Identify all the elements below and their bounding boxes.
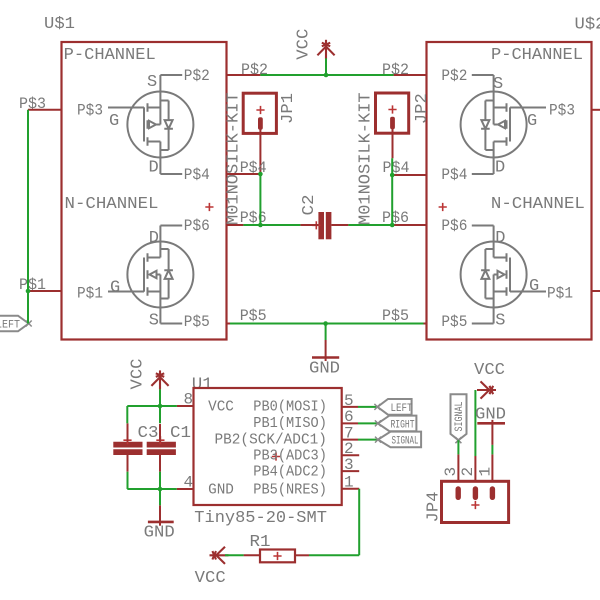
- GND JP4 bar: [477, 422, 505, 425]
- GND JP4 stem: [491, 420, 493, 445]
- svg-text:P$3: P$3: [77, 102, 103, 120]
- net label flag SIGNAL (U1 pin7): [358, 432, 421, 448]
- LEFT flag tip cross: [374, 404, 380, 410]
- VCC JP4 arrow symbol: [477, 381, 496, 398]
- U1 origin cross: [272, 452, 280, 460]
- U$2 origin cross: [439, 203, 447, 211]
- svg-text:RIGHT: RIGHT: [391, 419, 415, 431]
- U$1 origin cross: [205, 203, 213, 211]
- power symbol VCC left: [129, 359, 169, 390]
- pin stub U$1 P$3: [28, 109, 62, 111]
- svg-text:PB1(MISO): PB1(MISO): [253, 415, 327, 432]
- JP2 pin 1 lead wire: [392, 129, 394, 159]
- svg-text:VCC: VCC: [474, 361, 505, 380]
- SIGNAL vertical flag outline: [451, 394, 467, 440]
- wire C1 bottom vertical: [159, 472, 161, 506]
- net label flag LEFT (west): [0, 316, 32, 332]
- svg-text:S: S: [147, 73, 157, 92]
- JP4 pin2 net wire: [474, 390, 476, 456]
- svg-text:P$5: P$5: [441, 313, 467, 331]
- svg-text:G: G: [109, 112, 119, 131]
- capacitor C2: [300, 195, 348, 240]
- svg-text:S: S: [495, 312, 505, 331]
- JP4 pin 1 stub: [491, 454, 493, 481]
- GND stem: [325, 340, 327, 361]
- svg-text:PB4(ADC2): PB4(ADC2): [253, 464, 327, 481]
- JP1 pad pin 1: [258, 117, 263, 129]
- pin stub U$2 P$4: [392, 174, 426, 176]
- svg-text:U$2: U$2: [575, 16, 600, 35]
- power symbol VCC at JP4: [474, 361, 505, 456]
- R1 left lead: [244, 554, 260, 556]
- junction GND pin4: [158, 487, 163, 492]
- pin stub U$1 P$6: [227, 224, 244, 226]
- svg-text:D: D: [495, 229, 505, 248]
- svg-text:SIGNAL: SIGNAL: [392, 436, 419, 448]
- SIGNAL flag tip cross: [375, 437, 381, 443]
- JP1 outline box: [243, 93, 276, 133]
- svg-text:SIGNAL: SIGNAL: [454, 402, 466, 432]
- transistor U$1 N-channel mosfet: [108, 226, 193, 324]
- pin7 net wire: [358, 439, 378, 441]
- svg-text:GND: GND: [309, 360, 340, 379]
- JP1 origin cross: [256, 106, 264, 114]
- JP4 outline box: [442, 481, 509, 522]
- RIGHT flag outline: [378, 416, 417, 432]
- svg-text:PB0(MOSI): PB0(MOSI): [253, 399, 327, 416]
- C1 top plate: [147, 442, 176, 448]
- U1 pin 5 stub: [342, 406, 358, 408]
- svg-text:P-CHANNEL: P-CHANNEL: [64, 46, 156, 65]
- svg-text:G: G: [529, 277, 539, 296]
- R1 origin cross: [273, 552, 281, 560]
- U1 pin 2 stub: [342, 454, 360, 456]
- C2 origin cross: [312, 221, 320, 229]
- junction JP2 P$4: [390, 173, 395, 178]
- svg-text:VCC: VCC: [129, 359, 148, 390]
- U1 pin 1 stub: [342, 488, 360, 490]
- C2 left plate: [318, 212, 324, 239]
- svg-text:P$6: P$6: [441, 217, 467, 235]
- power symbol VCC top: [295, 29, 335, 60]
- wire C3 bottom vertical: [127, 472, 129, 489]
- C1 top lead: [159, 424, 161, 442]
- VCC R1 arrow symbol: [210, 547, 229, 564]
- wire net R1 to U1 pin1: [309, 489, 359, 556]
- U1 pin 8 stub: [177, 405, 194, 407]
- U1 pin 3 stub: [342, 470, 360, 472]
- wire VCC symbol drop: [325, 58, 327, 75]
- junction VCC pin8: [158, 404, 163, 409]
- U$2 package box: [427, 42, 592, 340]
- wire net VCC left vertical: [159, 389, 161, 423]
- SIGNAL vertical flag tip cross: [455, 437, 461, 443]
- svg-text:LEFT: LEFT: [0, 320, 20, 332]
- svg-text:P$5: P$5: [240, 307, 267, 325]
- transistor U$2 N-channel mosfet: [461, 226, 546, 324]
- wire GND symbol drop: [325, 324, 327, 341]
- U$1 package box: [62, 42, 227, 340]
- junction C2 right net: [390, 223, 395, 228]
- svg-text:P$2: P$2: [382, 61, 409, 79]
- U1 pin 7 stub: [342, 439, 358, 441]
- C3 origin cross: [123, 436, 131, 444]
- svg-text:P-CHANNEL: P-CHANNEL: [491, 46, 583, 65]
- svg-text:U$1: U$1: [44, 15, 75, 34]
- capacitor C3: [113, 423, 158, 471]
- pin stub U$1 P$5: [227, 323, 231, 325]
- connector JP4: [424, 454, 508, 522]
- wire net VCC top horizontal: [260, 74, 393, 76]
- svg-text:JP4: JP4: [424, 492, 443, 523]
- wire JP2 to P$4 vertical: [391, 158, 393, 225]
- JP2 pad pin 1: [390, 117, 395, 129]
- RIGHT flag tip cross: [375, 420, 381, 426]
- LEFT flag outline: [0, 316, 29, 332]
- JP4 pin3 net wire: [457, 440, 459, 454]
- wire net VCC to R1: [225, 554, 244, 556]
- connector JP1: [224, 92, 298, 225]
- svg-text:S: S: [493, 75, 503, 94]
- C3 top lead: [127, 423, 129, 441]
- C1 bottom lead: [159, 455, 161, 472]
- svg-text:GND: GND: [475, 405, 506, 424]
- VCC left arrow symbol: [151, 370, 168, 389]
- ground symbol GND middle: [309, 340, 340, 379]
- LEFT flag outline: [377, 399, 411, 415]
- C1 bottom plate: [147, 449, 176, 455]
- C2 right plate: [326, 212, 332, 239]
- pin stub U$2 P$2: [394, 74, 427, 76]
- junction C2 left net: [258, 223, 263, 228]
- svg-text:C3: C3: [138, 424, 159, 443]
- net label flag LEFT (U1 pin5): [358, 399, 413, 415]
- svg-text:P$5: P$5: [184, 313, 210, 331]
- C2 right lead: [331, 224, 348, 226]
- pin stub U$1 P$1: [28, 290, 62, 292]
- svg-text:D: D: [149, 229, 159, 248]
- svg-text:P$2: P$2: [184, 67, 210, 85]
- wire net P$6 left: [243, 224, 300, 226]
- svg-text:PB5(NRES): PB5(NRES): [253, 481, 327, 498]
- GND bar: [312, 356, 339, 359]
- svg-text:P$1: P$1: [77, 285, 103, 303]
- net label flag RIGHT (U1 pin6): [358, 416, 416, 432]
- VCC arrow symbol: [317, 40, 334, 59]
- R1 body: [260, 550, 295, 563]
- mosfet module U$1: [44, 15, 227, 340]
- GND left stem: [159, 505, 161, 525]
- JP4 pin 2 stub: [474, 456, 476, 481]
- junction LEFT P$1: [26, 289, 31, 294]
- svg-text:P$3: P$3: [549, 102, 575, 120]
- C3 bottom lead: [127, 455, 129, 472]
- JP2 outline box: [376, 93, 409, 133]
- svg-text:GND: GND: [144, 524, 175, 543]
- ground symbol GND left: [144, 505, 175, 542]
- wire JP1 to P$4 vertical: [259, 174, 261, 225]
- svg-text:G: G: [110, 279, 120, 298]
- svg-text:Tiny85-20-SMT: Tiny85-20-SMT: [194, 509, 327, 528]
- svg-text:P$2: P$2: [241, 61, 268, 79]
- U1 pin 4 stub: [177, 488, 194, 490]
- svg-text:LEFT: LEFT: [391, 403, 413, 415]
- svg-text:D: D: [495, 159, 505, 178]
- capacitor C1: [147, 424, 191, 472]
- SIGNAL flag outline: [378, 432, 421, 448]
- power symbol VCC at R1: [195, 547, 229, 588]
- svg-text:N-CHANNEL: N-CHANNEL: [65, 195, 159, 214]
- junction GND net: [323, 321, 328, 326]
- C3 bottom plate: [113, 449, 142, 455]
- transistor U$2 P-channel mosfet: [461, 75, 546, 174]
- pin stub U$2 P$1: [592, 290, 600, 292]
- wire net P$6 right: [348, 224, 392, 226]
- svg-text:P$4: P$4: [441, 166, 467, 184]
- R1 right lead: [295, 554, 309, 556]
- pin5 net wire: [358, 406, 377, 408]
- JP1 pin 1 lead wire: [259, 129, 261, 174]
- svg-text:P$5: P$5: [382, 307, 409, 325]
- svg-text:JP2: JP2: [413, 93, 432, 124]
- svg-text:P$6: P$6: [184, 217, 210, 235]
- JP4 pad pin 1: [490, 489, 495, 497]
- junction JP1 P$4: [258, 172, 263, 177]
- svg-text:VCC: VCC: [195, 569, 226, 588]
- pin stub U$2 P$6: [392, 224, 426, 226]
- JP4 origin cross: [471, 501, 479, 509]
- svg-text:VCC: VCC: [208, 399, 234, 416]
- wire C3 branch vertical: [126, 406, 128, 423]
- connector JP2: [356, 92, 431, 225]
- svg-text:P$4: P$4: [184, 166, 210, 184]
- junction VCC top: [324, 73, 329, 78]
- C3 top plate: [113, 442, 142, 448]
- svg-text:P$1: P$1: [547, 285, 573, 303]
- resistor R1: [244, 533, 309, 562]
- svg-text:N-CHANNEL: N-CHANNEL: [491, 195, 585, 214]
- svg-text:3: 3: [442, 467, 460, 477]
- svg-text:PB2(SCK/ADC1): PB2(SCK/ADC1): [215, 432, 327, 449]
- U1 package box: [194, 388, 342, 505]
- svg-text:PB3(ADC3): PB3(ADC3): [253, 448, 327, 465]
- microcontroller U1: [177, 375, 360, 528]
- svg-text:VCC: VCC: [295, 29, 314, 60]
- svg-text:S: S: [149, 312, 159, 331]
- wire net LEFT vertical: [27, 110, 29, 324]
- svg-text:M01NOSILK-KIT: M01NOSILK-KIT: [356, 92, 375, 225]
- transistor U$1 P-channel mosfet: [108, 75, 193, 174]
- net label flag SIGNAL (JP4 pin3, vertical): [451, 394, 467, 454]
- LEFT flag tip cross: [26, 321, 32, 327]
- JP4 pin 3 stub: [457, 454, 459, 481]
- pin stub U$2 P$3: [592, 109, 600, 111]
- pin stub U$1 P$4: [227, 173, 261, 175]
- pin stub U$2 P$5: [424, 323, 427, 325]
- svg-text:G: G: [527, 112, 537, 131]
- mosfet module U$2: [427, 16, 600, 340]
- svg-text:P$2: P$2: [441, 67, 467, 85]
- pin6 net wire: [358, 422, 378, 424]
- svg-text:GND: GND: [208, 482, 234, 499]
- JP4 pad pin 3: [456, 489, 461, 497]
- ground symbol GND at JP4: [475, 405, 506, 454]
- JP4 pad pin 2: [473, 489, 478, 497]
- GND left bar: [148, 521, 174, 524]
- JP2 origin cross: [388, 105, 396, 113]
- wire net GND bottom horizontal: [230, 323, 424, 325]
- U1 pin 6 stub: [342, 422, 358, 424]
- JP4 pin1 net wire: [491, 445, 493, 455]
- svg-text:C1: C1: [170, 424, 191, 443]
- wire net GND pin4 horizontal: [127, 488, 176, 490]
- C2 left lead: [300, 224, 318, 226]
- svg-text:U1: U1: [192, 375, 213, 394]
- svg-text:C2: C2: [300, 195, 319, 216]
- pin stub U$1 P$2: [227, 74, 261, 76]
- svg-text:JP1: JP1: [279, 93, 298, 124]
- svg-text:D: D: [149, 159, 159, 178]
- wire net VCC pin8 horizontal: [127, 405, 177, 407]
- C1 origin cross: [156, 436, 164, 444]
